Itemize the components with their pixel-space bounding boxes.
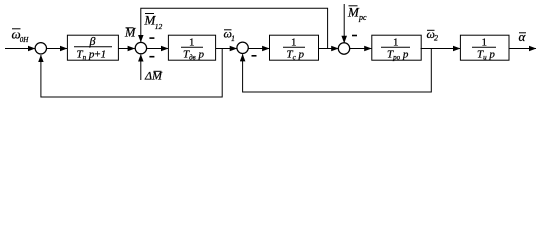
wire ΔM̄ input bbox=[140, 55, 142, 81]
wire sum2 to W2 bbox=[147, 48, 168, 50]
node M̄12 bbox=[144, 13, 163, 31]
block W1 β/(Tп p+1) bbox=[67, 34, 118, 62]
wire M̄12 feedback from node after W3 (top) bbox=[141, 8, 328, 48]
wire feedback ω̄1 to sum1 (bottom outer loop) bbox=[41, 49, 222, 98]
wire W4 to W5 (tap at x=431.3) bbox=[421, 48, 461, 50]
svg-text:12: 12 bbox=[155, 22, 163, 31]
summing junction sum2 bbox=[135, 42, 146, 53]
minus at sum4 top input bbox=[352, 35, 357, 37]
block W4 1/(Tро p) bbox=[372, 35, 421, 61]
block W5 1/(Tи p) bbox=[460, 35, 509, 61]
svg-text:β: β bbox=[89, 34, 96, 48]
wire feedback ω̄2 to sum3 (bottom inner loop) bbox=[243, 49, 432, 93]
svg-text:2: 2 bbox=[434, 34, 438, 43]
summing junction sum1 bbox=[35, 43, 46, 54]
node ᾱ bbox=[519, 29, 527, 44]
block W3 1/(Tс p) bbox=[270, 35, 319, 61]
wire W2 to sum3 bbox=[216, 48, 237, 50]
wire W1 to sum2 bbox=[119, 48, 135, 50]
wire sum1 to W1 bbox=[47, 48, 68, 50]
svg-text:Tи p: Tи p bbox=[477, 49, 495, 62]
svg-text:1: 1 bbox=[231, 34, 235, 43]
node ω̄0н (input label) bbox=[12, 27, 30, 44]
minus at sum3 bottom input bbox=[252, 55, 257, 57]
svg-text:Tп p+1: Tп p+1 bbox=[77, 49, 107, 62]
node ω̄2 bbox=[427, 27, 439, 43]
node ΔM̄ bbox=[144, 69, 163, 83]
node ω̄1 bbox=[224, 27, 236, 44]
svg-text:ΔM: ΔM bbox=[144, 69, 163, 83]
svg-text:α: α bbox=[519, 29, 527, 44]
wire sum3 to W3 bbox=[248, 48, 269, 50]
wire sum4 to W4 bbox=[350, 48, 372, 50]
node M̄рс bbox=[347, 5, 367, 23]
node M̄ bbox=[124, 26, 136, 40]
summing junction sum4 bbox=[338, 43, 349, 54]
wire W3 to sum4 (junction with top feedback at x=327.6) bbox=[319, 48, 339, 50]
wire M̄рс input bbox=[343, 4, 345, 43]
wire output bbox=[509, 48, 537, 50]
summing junction sum3 bbox=[237, 42, 248, 53]
minus at sum2 top input bbox=[149, 37, 154, 39]
block W2 1/(Tдв p) bbox=[168, 35, 215, 61]
svg-text:рс: рс bbox=[358, 13, 367, 22]
svg-text:Tс p: Tс p bbox=[287, 49, 305, 62]
minus at sum2 bottom input bbox=[149, 56, 154, 58]
wire input bbox=[5, 48, 35, 50]
svg-text:0Н: 0Н bbox=[20, 36, 30, 44]
